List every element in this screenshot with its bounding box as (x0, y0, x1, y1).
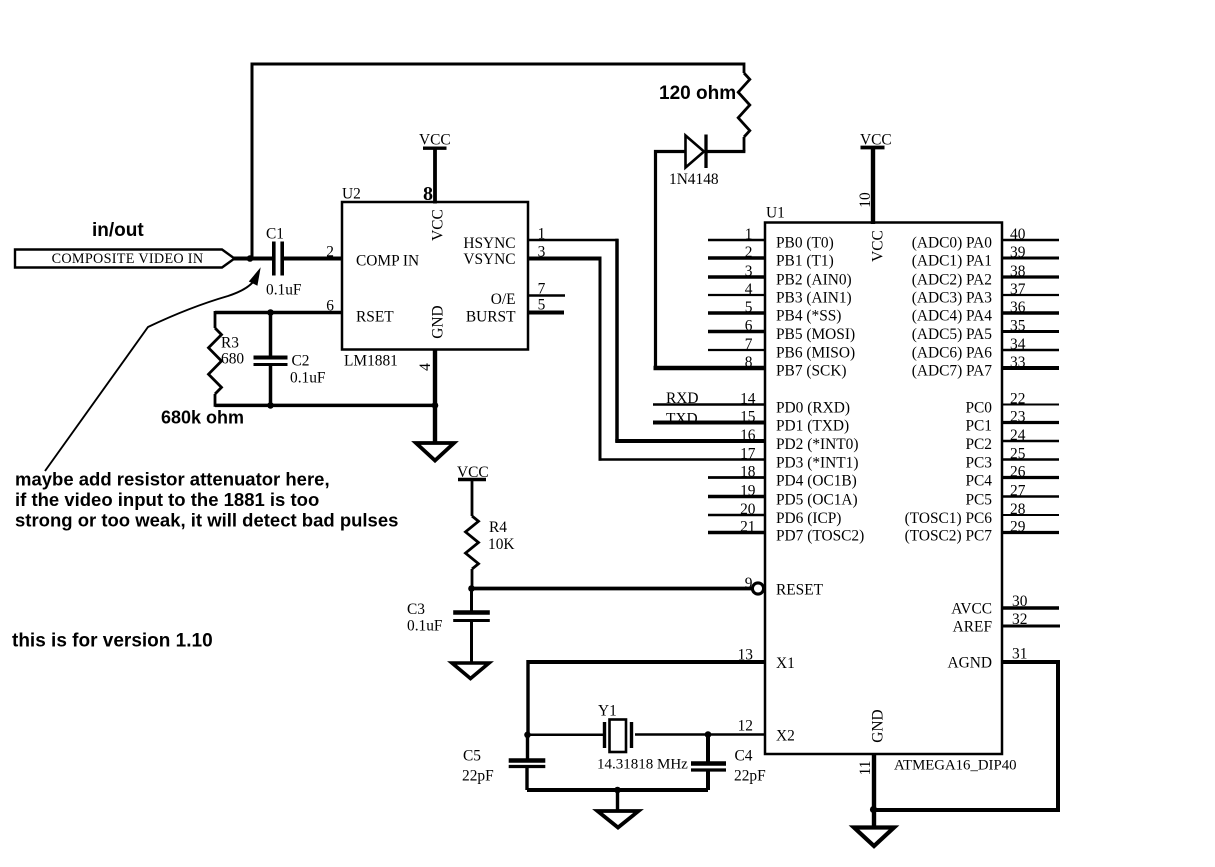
pin name COMP IN (356, 253, 419, 270)
svg-text:ATMEGA16_DIP40: ATMEGA16_DIP40 (894, 758, 1017, 774)
label U1 (766, 205, 785, 222)
svg-text:22pF: 22pF (734, 768, 766, 785)
pin number 3 (VSYNC) (538, 244, 546, 261)
U1 pin 28 (TOSC1) PC6 (905, 501, 1059, 527)
U1 pin 2 PB1 (T1) (708, 244, 834, 269)
pin name GND rotated (U1) (869, 709, 886, 742)
svg-text:VCC: VCC (869, 230, 886, 262)
wire U1 pin 8 (PB7) thick (654, 366, 766, 370)
svg-text:25: 25 (1010, 446, 1026, 463)
U1 pin 38 (ADC2) PA2 (912, 263, 1059, 288)
diode D1 1N4148 (686, 135, 707, 169)
svg-text:PD7 (TOSC2): PD7 (TOSC2) (776, 527, 864, 544)
wire C1 to U2 pin 2 (284, 257, 342, 261)
RESET inversion bubble (752, 583, 763, 594)
pin number 13 (X1) (738, 647, 754, 664)
label LM1881 (344, 353, 398, 370)
svg-text:PD4 (OC1B): PD4 (OC1B) (776, 472, 857, 489)
svg-text:(TOSC2) PC7: (TOSC2) PC7 (905, 527, 993, 544)
wire vertical from node up to top wire (251, 64, 254, 259)
svg-text:RSET: RSET (356, 309, 394, 326)
ground symbol below C3 (452, 663, 489, 679)
svg-text:PB4 (*SS): PB4 (*SS) (776, 307, 841, 324)
U1 pin 18 PD4 (OC1B) (708, 464, 857, 490)
wire resistor bottom to diode cathode (706, 150, 745, 153)
U1 pin 19 PD5 (OC1A) (708, 483, 858, 509)
wire diode anode left then down to U1 pin 8 (656, 152, 701, 369)
junction dot crystal left (524, 732, 531, 739)
wire crystal left lead (528, 734, 604, 737)
U1 pin 26 PC4 (965, 464, 1059, 490)
pin name TXD net label (666, 411, 698, 428)
svg-text:R4: R4 (489, 519, 507, 536)
label R4 (489, 519, 507, 536)
U1 pin 40 (ADC0) PA0 (912, 226, 1059, 251)
svg-text:COMPOSITE VIDEO IN: COMPOSITE VIDEO IN (52, 251, 204, 267)
svg-text:if the video input to the 1881: if the video input to the 1881 is too (15, 489, 319, 510)
svg-text:maybe add resistor attenuator: maybe add resistor attenuator here, (15, 469, 330, 490)
svg-text:0.1uF: 0.1uF (290, 370, 326, 387)
pin name RSET (356, 309, 394, 326)
svg-text:19: 19 (740, 483, 756, 500)
svg-text:Y1: Y1 (598, 703, 617, 720)
svg-text:31: 31 (1012, 646, 1027, 663)
annotation arrow line (45, 267, 261, 471)
svg-text:0.1uF: 0.1uF (266, 282, 302, 299)
annotation text maybe-add-resistor (15, 469, 398, 531)
U1 pin 15 PD1 (TXD) (653, 409, 849, 435)
pin number 4 rotated (U2 GND) (417, 363, 434, 371)
svg-text:35: 35 (1010, 318, 1026, 335)
svg-text:VCC: VCC (429, 209, 446, 241)
U1 pin 24 PC2 (965, 427, 1059, 453)
svg-text:18: 18 (740, 464, 756, 481)
pin number 2 (U2 COMP IN) (326, 244, 334, 261)
wire X2 stub (708, 733, 765, 736)
wire stub to crystal ground (616, 790, 619, 811)
svg-text:AVCC: AVCC (951, 601, 992, 618)
svg-text:AGND: AGND (948, 655, 992, 672)
svg-text:29: 29 (1010, 519, 1026, 536)
pin number 6 (U2 RSET) (326, 298, 334, 315)
svg-text:PB5 (MOSI): PB5 (MOSI) (776, 326, 855, 343)
svg-text:1N4148: 1N4148 (669, 171, 719, 188)
power VCC symbol for R4 (457, 464, 489, 481)
svg-text:PB3 (AIN1): PB3 (AIN1) (776, 289, 852, 306)
U1 pin 8 PB7 (SCK) (745, 354, 847, 379)
capacitor C3 (453, 589, 490, 664)
net COMPOSITE: connector flag COMPOSITE VIDEO IN (15, 250, 235, 268)
svg-text:PC5: PC5 (965, 491, 992, 508)
capacitor C5 (509, 761, 546, 791)
svg-text:(ADC6) PA6: (ADC6) PA6 (912, 344, 993, 361)
svg-text:X2: X2 (776, 728, 795, 745)
svg-text:HSYNC: HSYNC (463, 235, 515, 252)
svg-text:COMP IN: COMP IN (356, 253, 419, 270)
wire HSYNC pin 1 to PD2 (528, 239, 618, 442)
U1 pin 27 PC5 (965, 483, 1059, 509)
svg-text:27: 27 (1010, 483, 1026, 500)
U1 pin 37 (ADC3) PA3 (912, 281, 1059, 306)
svg-text:GND: GND (869, 709, 886, 742)
svg-text:6: 6 (745, 318, 753, 335)
svg-text:26: 26 (1010, 464, 1026, 481)
pin name VSYNC (463, 251, 515, 268)
label 120 ohm (659, 83, 736, 104)
value 22pF (C4) (734, 768, 766, 785)
junction dot AGND/GND (870, 806, 877, 813)
label C1 (266, 226, 284, 243)
svg-text:GND: GND (429, 305, 446, 338)
svg-text:40: 40 (1010, 226, 1026, 243)
pin name VCC rotated (U1) (869, 230, 886, 262)
wire top horizontal to 120 ohm resistor (251, 63, 745, 66)
pin name RXD net label (666, 390, 699, 407)
pin name GND rotated (U2) (429, 305, 446, 338)
svg-text:(ADC0) PA0: (ADC0) PA0 (912, 234, 993, 251)
U1 pin 3 PB2 (AIN0) (708, 263, 852, 288)
value 0.1uF (C3) (407, 618, 443, 635)
svg-text:3: 3 (745, 263, 753, 280)
pin name O/E (491, 291, 516, 308)
svg-text:15: 15 (740, 409, 756, 426)
wire PD2 row 16 horizontal (615, 439, 765, 443)
U1 pin 30 AVCC (951, 593, 1059, 617)
svg-text:PB1 (T1): PB1 (T1) (776, 252, 834, 269)
svg-text:4: 4 (745, 281, 753, 298)
value 0.1uF (C2) (290, 370, 326, 387)
svg-text:38: 38 (1010, 263, 1026, 280)
label U2 (342, 186, 361, 203)
svg-text:4: 4 (417, 363, 434, 371)
svg-text:PB7 (SCK): PB7 (SCK) (776, 362, 847, 379)
U1 pin 20 PD6 (ICP) (708, 501, 841, 527)
label in/out (92, 220, 144, 241)
svg-text:C2: C2 (292, 353, 310, 370)
junction dot C2 top (267, 309, 274, 316)
U1 pin 35 (ADC5) PA5 (912, 318, 1059, 343)
value 14.31818 MHz (597, 757, 688, 773)
junction dot crystal ground (614, 787, 621, 794)
svg-text:6: 6 (326, 298, 334, 315)
U1 pin 32 AREF (953, 611, 1060, 635)
svg-text:VCC: VCC (419, 131, 451, 148)
svg-text:5: 5 (745, 299, 753, 316)
label C3 (407, 601, 425, 618)
junction dot crystal right (705, 731, 712, 738)
svg-text:PD1 (TXD): PD1 (TXD) (776, 417, 849, 434)
svg-text:PC0: PC0 (965, 399, 992, 416)
svg-text:PB2 (AIN0): PB2 (AIN0) (776, 271, 852, 288)
wire VSYNC pin 3 to PD3 (528, 257, 601, 461)
pin number 5 (BURST) (538, 297, 546, 314)
U1 pin 39 (ADC1) PA1 (912, 244, 1059, 269)
svg-text:(ADC2) PA2: (ADC2) PA2 (912, 271, 992, 288)
U1 pin 34 (ADC6) PA6 (912, 336, 1059, 361)
svg-text:U2: U2 (342, 186, 361, 203)
svg-text:22: 22 (1010, 391, 1025, 408)
svg-text:2: 2 (745, 244, 753, 261)
label C5 (463, 748, 481, 765)
U1 pin 16 PD2 (*INT0) (740, 427, 858, 453)
U1 pin 33 (ADC7) PA7 (912, 354, 1059, 379)
svg-text:RXD: RXD (666, 390, 699, 407)
capacitor C2 (254, 311, 288, 405)
pin name X2 (776, 728, 795, 745)
op-amp U2 LM1881 body (342, 202, 528, 350)
svg-text:13: 13 (738, 647, 754, 664)
junction dot GND net (432, 402, 439, 409)
value 22pF (C5) (462, 768, 494, 785)
svg-text:AREF: AREF (953, 619, 992, 636)
stub O/E pin 7 (528, 294, 565, 297)
svg-text:8: 8 (745, 354, 753, 371)
wire VCC to U1 pin 10 (871, 149, 875, 224)
svg-text:22pF: 22pF (462, 768, 494, 785)
svg-text:PC2: PC2 (965, 436, 992, 453)
U1 pin 4 PB3 (AIN1) (708, 281, 852, 306)
svg-text:BURST: BURST (466, 309, 516, 326)
power VCC symbol for U2 (419, 131, 451, 148)
U1 pin 25 PC3 (965, 446, 1059, 472)
svg-text:(ADC7) PA7: (ADC7) PA7 (912, 362, 993, 379)
pin number 9 (RESET) (745, 575, 753, 592)
ground symbol below U1 (854, 828, 894, 847)
svg-text:36: 36 (1010, 299, 1026, 316)
wire RESET net (472, 587, 753, 591)
svg-text:X1: X1 (776, 655, 795, 672)
svg-text:10K: 10K (488, 536, 515, 553)
power VCC symbol for U1 (860, 132, 892, 149)
svg-text:10: 10 (857, 192, 874, 208)
pin number 11 rotated (U1 GND) (857, 761, 874, 776)
svg-text:(ADC1) PA1: (ADC1) PA1 (912, 252, 992, 269)
svg-text:14.31818 MHz: 14.31818 MHz (597, 757, 688, 773)
wire crystal bottom (527, 788, 708, 792)
value 680 (R3) (221, 351, 244, 368)
pin name RESET (776, 582, 824, 599)
ground symbol below crystal (598, 811, 639, 828)
label R3 (221, 335, 239, 352)
svg-text:O/E: O/E (491, 291, 516, 308)
wire PD3 row 17 horizontal (599, 458, 765, 461)
pin number 7 (O/E) (538, 281, 546, 298)
svg-text:(ADC3) PA3: (ADC3) PA3 (912, 289, 993, 306)
U1 pin 1 PB0 (T0) (708, 226, 834, 251)
svg-text:24: 24 (1010, 427, 1026, 444)
svg-text:21: 21 (740, 519, 755, 536)
svg-text:LM1881: LM1881 (344, 353, 398, 370)
junction dot C2 bottom (267, 402, 274, 409)
svg-text:14: 14 (740, 391, 756, 408)
svg-text:680: 680 (221, 351, 244, 368)
svg-text:12: 12 (738, 718, 753, 735)
capacitor C4 (691, 736, 726, 790)
svg-text:U1: U1 (766, 205, 785, 222)
label C4 (735, 748, 753, 765)
U1 pin 21 PD7 (TOSC2) (708, 519, 864, 545)
svg-text:PC4: PC4 (965, 472, 992, 489)
svg-text:(TOSC1) PC6: (TOSC1) PC6 (905, 510, 993, 527)
wire U1 pin 11 GND down (872, 754, 876, 827)
svg-text:7: 7 (745, 336, 753, 353)
wire VCC to U2 pin 8 (433, 149, 437, 204)
pin number 12 (X2) (738, 718, 753, 735)
U1 pin 31 AGND wire (872, 646, 1058, 811)
svg-text:C5: C5 (463, 748, 481, 765)
wire X1 net (528, 660, 765, 664)
U1 pin 29 (TOSC2) PC7 (905, 519, 1059, 545)
U1 pin 6 PB5 (MOSI) (708, 318, 855, 343)
svg-text:C4: C4 (735, 748, 753, 765)
svg-text:PD5 (OC1A): PD5 (OC1A) (776, 491, 858, 508)
pin name HSYNC (463, 235, 515, 252)
svg-text:TXD: TXD (666, 411, 698, 428)
svg-text:PC1: PC1 (965, 417, 992, 434)
svg-text:34: 34 (1010, 336, 1026, 353)
U1 pin 7 PB6 (MISO) (708, 336, 855, 361)
svg-text:PB6 (MISO): PB6 (MISO) (776, 344, 855, 361)
label ATMEGA16_DIP40 (894, 758, 1017, 774)
pin name BURST (466, 309, 516, 326)
stub BURST pin 5 (528, 311, 564, 315)
svg-text:R3: R3 (221, 335, 239, 352)
svg-text:37: 37 (1010, 281, 1026, 298)
svg-text:16: 16 (740, 427, 756, 444)
svg-text:1: 1 (745, 226, 753, 243)
crystal Y1 (605, 720, 632, 753)
value 0.1uF (C1) (266, 282, 302, 299)
label 1N4148 (669, 171, 719, 188)
ground symbol below U2 (416, 443, 454, 461)
junction dot R4/C3/RESET (468, 585, 475, 592)
label 680k ohm (161, 408, 244, 428)
pin number 8 (U2 VCC) bold (423, 183, 433, 205)
svg-text:C3: C3 (407, 601, 425, 618)
IC U1 ATMEGA16 body (765, 223, 1002, 755)
svg-text:this is for version 1.10: this is for version 1.10 (12, 631, 213, 652)
label Y1 (598, 703, 617, 720)
svg-text:C1: C1 (266, 226, 284, 243)
svg-text:strong or too weak, it will de: strong or too weak, it will detect bad p… (15, 510, 398, 531)
U1 pin 22 PC0 (965, 391, 1059, 417)
U1 pin 36 (ADC4) PA4 (912, 299, 1059, 324)
svg-text:PD2 (*INT0): PD2 (*INT0) (776, 436, 859, 453)
U1 pin 14 PD0 (RXD) (653, 391, 850, 417)
svg-text:23: 23 (1010, 409, 1026, 426)
resistor 120 ohm (vertical) (738, 63, 750, 152)
svg-text:680k ohm: 680k ohm (161, 408, 244, 428)
svg-text:0.1uF: 0.1uF (407, 618, 443, 635)
wire flag to C1 (234, 257, 272, 261)
wire bottom of R3/C2 to U2 GND (215, 404, 436, 408)
svg-text:2: 2 (326, 244, 334, 261)
svg-text:17: 17 (740, 446, 756, 463)
svg-text:PD0 (RXD): PD0 (RXD) (776, 399, 850, 416)
svg-text:PD6 (ICP): PD6 (ICP) (776, 510, 841, 527)
svg-text:30: 30 (1012, 593, 1028, 610)
wire left vertical of crystal loop (526, 660, 530, 759)
svg-text:32: 32 (1012, 611, 1027, 628)
label C2 (292, 353, 310, 370)
svg-text:(ADC5) PA5: (ADC5) PA5 (912, 326, 993, 343)
pin name VCC rotated (U2) (429, 209, 446, 241)
U1 pin 5 PB4 (*SS) (708, 299, 841, 324)
svg-text:RESET: RESET (776, 582, 824, 599)
resistor R4 (vertical) (466, 481, 479, 590)
pin name X1 (776, 655, 795, 672)
svg-text:33: 33 (1010, 354, 1026, 371)
svg-text:PB0 (T0): PB0 (T0) (776, 234, 834, 251)
svg-text:in/out: in/out (92, 220, 144, 241)
svg-text:20: 20 (740, 501, 756, 518)
wire U2 pin 6 RSET (215, 311, 342, 315)
svg-text:11: 11 (857, 761, 874, 776)
svg-text:PD3 (*INT1): PD3 (*INT1) (776, 454, 859, 471)
node junction dot at C1 input (247, 255, 254, 262)
pin number 1 (HSYNC) (538, 226, 546, 243)
wire U2 pin 4 GND down (433, 350, 437, 444)
capacitor C1 plates (274, 242, 282, 276)
svg-text:(ADC4) PA4: (ADC4) PA4 (912, 307, 993, 324)
wire crystal right lead (635, 733, 709, 736)
svg-text:120 ohm: 120 ohm (659, 83, 736, 104)
resistor R3 (vertical) (209, 311, 222, 407)
U1 pin 17 PD3 (*INT1) (740, 446, 858, 472)
value 10K (R4) (488, 536, 515, 553)
pin number 10 rotated (U1 VCC) (857, 192, 874, 208)
annotation text version (12, 631, 213, 652)
svg-text:28: 28 (1010, 501, 1026, 518)
svg-text:VSYNC: VSYNC (463, 251, 515, 268)
svg-text:39: 39 (1010, 244, 1026, 261)
svg-text:PC3: PC3 (965, 454, 992, 471)
U1 pin 23 PC1 (965, 409, 1059, 435)
